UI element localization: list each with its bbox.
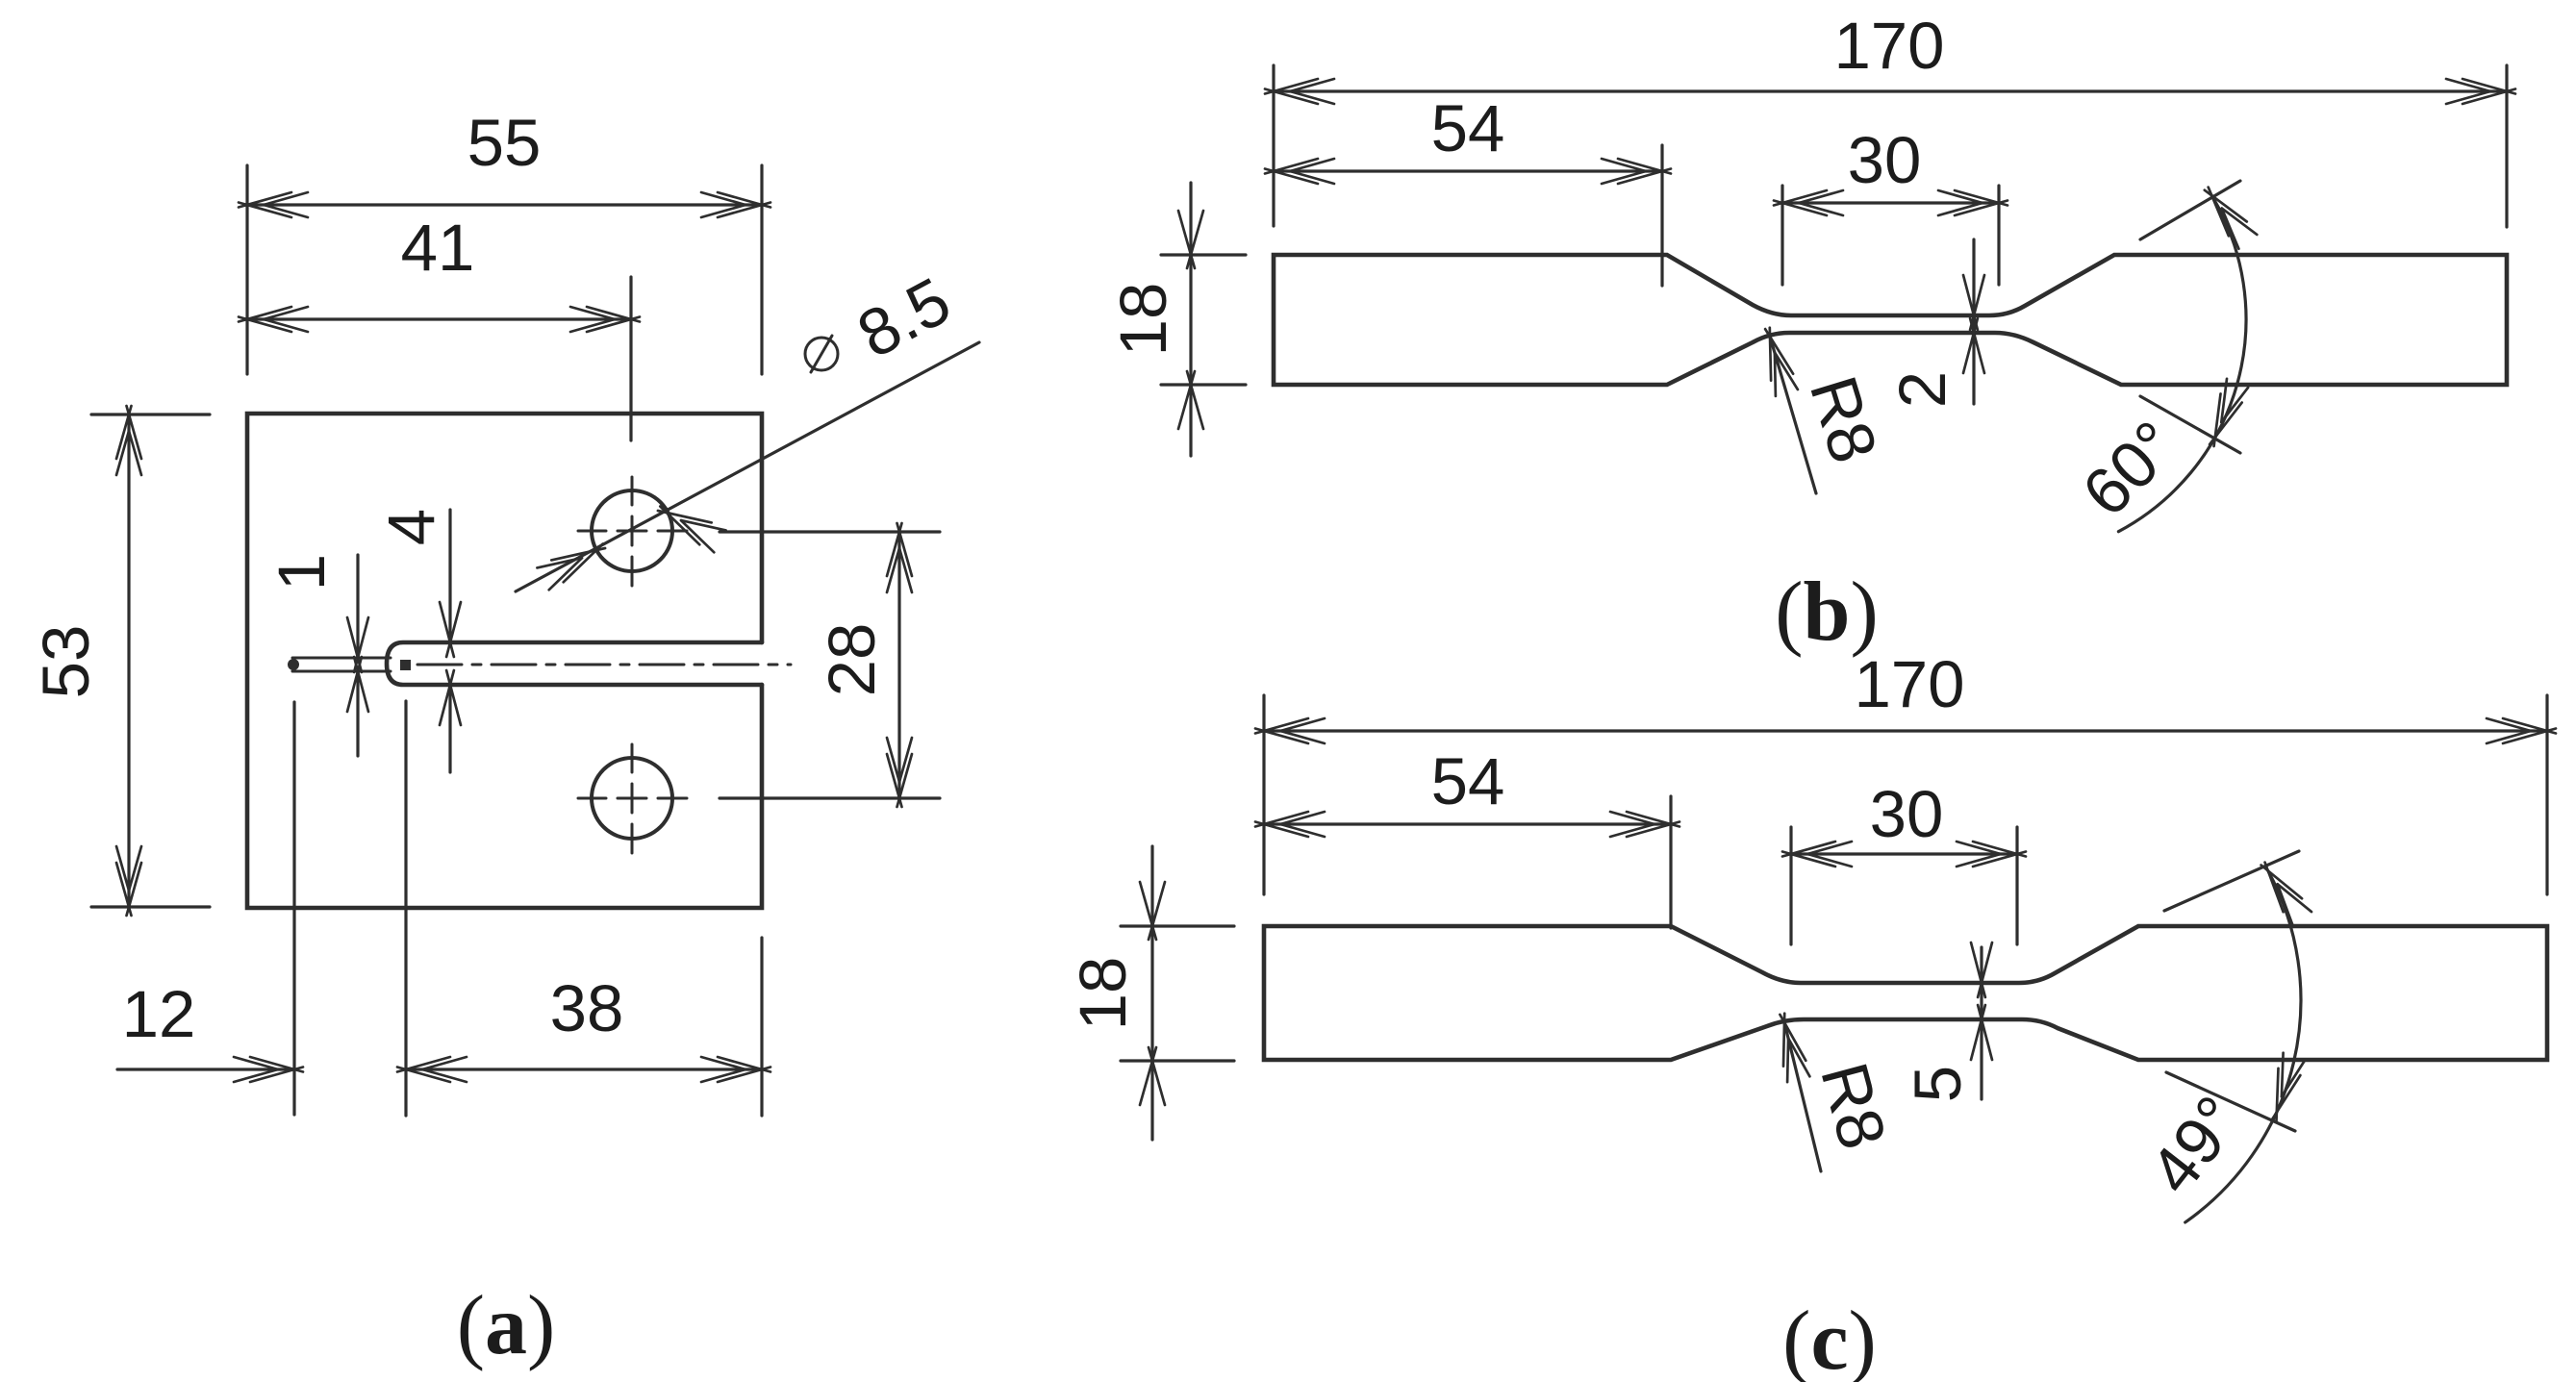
specimen (a) crack starter slit: [292, 658, 391, 671]
dimension 54 (b) line: [1274, 169, 1662, 172]
notch reference dot: [400, 660, 411, 670]
slot center line: [417, 664, 791, 666]
angle 49 (c) arc: [2185, 870, 2301, 1222]
dimension 170 (c) extension lines: [1262, 695, 1265, 894]
dimension 53 extension lines: [91, 413, 210, 415]
dimension 55 line: [247, 203, 762, 206]
pin hole top center marks: [578, 530, 687, 533]
svg-text:38: 38: [550, 971, 624, 1045]
dimension 30 (c) extension lines: [1789, 827, 1792, 944]
angle 60 (b) arc: [2118, 195, 2246, 532]
hole diameter leader line: [516, 342, 979, 591]
fillet R8 (c) leader: [1784, 1022, 1821, 1171]
svg-text:30: 30: [1848, 123, 1922, 197]
svg-text:(b): (b): [1775, 565, 1879, 659]
svg-text:54: 54: [1431, 744, 1505, 818]
fillet R8 (b) leader: [1770, 337, 1816, 493]
angle 49 (c) taper extension lines: [2164, 851, 2299, 911]
dimension 18 (b) line: [1189, 183, 1192, 456]
dimension 170 (c) line: [1264, 729, 2547, 732]
svg-text:4: 4: [374, 509, 448, 545]
dimension 18 (c) extension lines: [1121, 924, 1234, 927]
svg-text:(c): (c): [1782, 1294, 1877, 1382]
dimension 12 line: [117, 1068, 294, 1070]
dimension 12 extension line: [292, 702, 295, 1115]
dimension 18 (c) line: [1150, 846, 1153, 1140]
svg-text:18: 18: [1066, 957, 1140, 1031]
dimension 38 extension lines: [404, 701, 407, 1116]
dimension 4 line: [448, 510, 451, 642]
svg-text:30: 30: [1870, 777, 1944, 851]
svg-text:41: 41: [401, 211, 475, 285]
svg-text:170: 170: [1833, 9, 1944, 83]
dimension 28 line: [897, 532, 900, 798]
svg-text:18: 18: [1106, 283, 1180, 357]
svg-text:2: 2: [1885, 371, 1959, 408]
slit tip: [288, 659, 299, 670]
dimension 2 (b) line: [1972, 239, 1975, 404]
dimension 5 (c) line: [1980, 947, 1983, 1099]
svg-text:54: 54: [1431, 91, 1505, 165]
svg-text:170: 170: [1854, 647, 1964, 721]
dimension 28 extension lines: [720, 530, 940, 533]
pin hole bottom: [592, 758, 672, 839]
svg-text:55: 55: [467, 106, 542, 180]
dimension 41 line: [247, 317, 631, 320]
specimen (a) machined notch slot: [387, 642, 762, 685]
specimen (b) outline: [1274, 255, 2507, 385]
hole diameter text Ø8.5: [805, 338, 838, 370]
pin hole bottom center marks: [578, 797, 687, 800]
specimen (c) outline: [1264, 926, 2547, 1060]
pin hole top: [592, 490, 672, 571]
dimension 41 extension line: [629, 277, 632, 440]
svg-text:1: 1: [265, 554, 339, 590]
dimension 18 (b) extension lines: [1161, 253, 1246, 256]
dimension 170 (b) extension lines: [1272, 65, 1275, 226]
dimension 55 extension lines: [245, 165, 248, 374]
svg-text:5: 5: [1901, 1066, 1975, 1102]
svg-text:28: 28: [815, 623, 889, 697]
dimension 54 (c) line: [1264, 822, 1671, 825]
dimension 30 (b) line: [1782, 201, 1999, 204]
dimension 30 (c) line: [1791, 852, 2017, 855]
dimension 1 line: [356, 555, 359, 658]
svg-text:12: 12: [122, 977, 196, 1051]
dimension 30 (b) extension lines: [1780, 186, 1783, 285]
svg-text:(a): (a): [457, 1279, 556, 1372]
dimension 54 (b) extension line: [1660, 145, 1663, 286]
dimension 54 (c) extension line: [1669, 796, 1672, 928]
dimension 170 (b) line: [1274, 89, 2507, 92]
specimen (a) plate outline: [247, 414, 762, 908]
dimension 53 line: [127, 415, 130, 907]
angle 60 (b) taper extension lines: [2140, 181, 2240, 239]
dimension 38 line: [406, 1068, 762, 1070]
svg-text:53: 53: [29, 625, 103, 699]
